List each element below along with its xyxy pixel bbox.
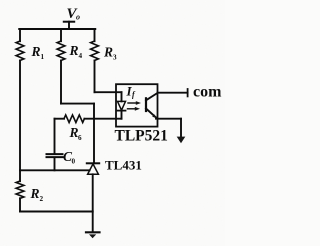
wire left rail bottom	[19, 198, 21, 211]
resistor R4	[57, 41, 82, 60]
resistor R6	[64, 115, 84, 142]
op-amp U1 optocoupler TLP521 box	[116, 84, 158, 126]
resistor R2	[16, 181, 43, 203]
wire collector to com	[158, 92, 188, 94]
svg-text:o: o	[76, 13, 80, 22]
svg-text:3: 3	[113, 54, 117, 62]
svg-text:R: R	[31, 44, 41, 59]
diode LED of optocoupler	[118, 92, 126, 119]
wire emitter out	[156, 119, 181, 137]
transistor Q1 phototransistor	[146, 93, 157, 118]
capacitor C0	[47, 119, 76, 171]
ground arrow emitter	[177, 137, 186, 144]
wire TL431 ref row	[20, 169, 90, 171]
wire R3 top	[94, 29, 96, 41]
label TLP521	[115, 128, 168, 145]
svg-text:R: R	[69, 125, 79, 140]
wire bottom row	[20, 211, 93, 213]
resistor R1	[16, 41, 44, 61]
wire compensation row	[55, 118, 65, 120]
wire R3 bottom drop	[94, 61, 96, 93]
wire LED anode	[95, 91, 122, 93]
wire TL431 anode down	[92, 174, 94, 231]
terminal Vo	[64, 22, 74, 29]
svg-text:R: R	[103, 45, 113, 60]
svg-text:com: com	[193, 84, 222, 101]
svg-text:R: R	[69, 43, 79, 58]
wire left rail top	[19, 29, 21, 41]
node Vo label	[67, 6, 81, 22]
svg-text:R: R	[30, 186, 40, 201]
svg-text:6: 6	[78, 134, 82, 142]
label If	[126, 84, 137, 99]
wire R4 branch horizontal	[61, 103, 94, 105]
svg-text:1: 1	[41, 53, 45, 61]
TL431 regulator	[87, 157, 142, 174]
resistor R3	[91, 41, 117, 62]
node com label	[193, 84, 222, 101]
wire top bus	[19, 28, 95, 30]
wire mid vertical to TL431	[93, 104, 95, 164]
wire row to LED cathode	[84, 118, 121, 120]
wire R4 bottom drop	[60, 61, 62, 104]
svg-text:TLP521: TLP521	[115, 128, 168, 145]
ground	[86, 232, 100, 238]
terminal com	[187, 89, 189, 96]
wire left rail middle	[19, 61, 21, 182]
svg-text:0: 0	[72, 158, 76, 166]
svg-text:4: 4	[79, 52, 83, 60]
wire R4 top	[60, 29, 62, 41]
svg-text:TL431: TL431	[105, 157, 142, 172]
light arrows	[128, 101, 142, 111]
svg-text:2: 2	[40, 195, 44, 203]
